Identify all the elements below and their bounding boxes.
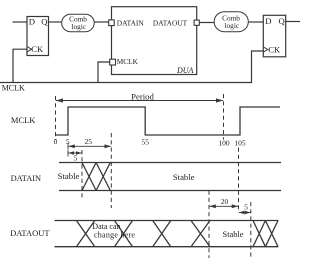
wire MCLK bus horizontal xyxy=(0,51,263,83)
svg-text:MCLK: MCLK xyxy=(2,84,25,93)
DATAOUT waveform rails xyxy=(55,221,279,247)
svg-text:5: 5 xyxy=(74,153,78,162)
dashed line t=0 xyxy=(55,96,57,140)
svg-text:55: 55 xyxy=(141,138,149,147)
svg-text:MCLK: MCLK xyxy=(11,115,36,125)
svg-text:logic: logic xyxy=(72,22,87,31)
wire CL2 to FF2 D input xyxy=(248,21,263,23)
DATAOUT crossover X1 xyxy=(76,221,94,247)
svg-text:20: 20 xyxy=(221,197,229,206)
dashed line hold boundary t=10 xyxy=(81,150,83,200)
svg-text:Stable: Stable xyxy=(223,230,244,239)
dimension Period arrow xyxy=(56,98,223,102)
svg-text:Period: Period xyxy=(131,92,154,102)
dashed line t=100 xyxy=(223,94,225,140)
svg-text:DATAIN: DATAIN xyxy=(11,174,41,183)
DATAIN crossover X1 xyxy=(82,163,96,191)
svg-text:DATAIN: DATAIN xyxy=(117,18,145,27)
svg-text:0: 0 xyxy=(54,137,58,146)
comb logic block CL1 xyxy=(62,14,94,32)
flip-flop FF2 box xyxy=(263,15,285,57)
dashed line DATAOUT stable end xyxy=(250,202,252,258)
DATAOUT crossover X5 xyxy=(253,221,265,247)
flip-flop FF1 clock triangle xyxy=(27,47,32,52)
svg-text:D: D xyxy=(265,16,271,26)
dimension 5 output arrow xyxy=(239,211,251,214)
MCLK waveform xyxy=(55,107,280,135)
DATAOUT crossover X4 xyxy=(191,221,210,247)
comb logic block CL2 xyxy=(214,12,248,32)
flip-flop FF1 box xyxy=(27,17,49,56)
DATAOUT crossover X3 xyxy=(153,221,171,247)
svg-text:CK: CK xyxy=(268,44,281,54)
svg-text:D: D xyxy=(29,16,35,26)
DATAOUT crossover X6 xyxy=(265,221,278,247)
port DATAOUT xyxy=(194,20,199,25)
wire FF1 clock xyxy=(13,49,27,82)
wire DATAOUT to comb logic CL2 xyxy=(199,22,214,24)
port DATAIN xyxy=(109,20,115,26)
dimension 5 hold arrow xyxy=(68,150,82,157)
svg-text:DATAOUT: DATAOUT xyxy=(153,18,188,27)
svg-text:CK: CK xyxy=(31,44,44,54)
svg-text:25: 25 xyxy=(84,137,92,146)
dashed line t=25 xyxy=(110,133,112,208)
flip-flop FF2 clock triangle xyxy=(263,47,268,52)
dashed line DATAOUT stable start xyxy=(208,191,210,259)
svg-text:DUA: DUA xyxy=(176,66,194,75)
svg-text:Stable: Stable xyxy=(58,171,80,181)
DUA block xyxy=(112,7,197,75)
timing diagram xyxy=(56,94,251,258)
svg-text:logic: logic xyxy=(225,21,240,30)
svg-text:Q: Q xyxy=(279,16,286,26)
svg-text:100: 100 xyxy=(218,138,230,147)
DATAOUT crossover X2 xyxy=(115,221,133,247)
svg-text:5: 5 xyxy=(244,203,248,212)
DATAIN crossover X2 xyxy=(96,163,110,191)
wire CL1 to DATAIN port xyxy=(94,21,109,23)
wire Q FF2 output xyxy=(286,21,300,23)
dimension 25 arrow xyxy=(68,143,111,150)
wire D input FF1 xyxy=(13,21,28,23)
DATAIN waveform rails xyxy=(59,163,281,191)
svg-text:Q: Q xyxy=(41,16,48,26)
dashed line t=105 lower xyxy=(238,148,240,212)
svg-text:Stable: Stable xyxy=(173,172,195,182)
svg-text:MCLK: MCLK xyxy=(117,57,139,66)
port MCLK xyxy=(110,59,116,65)
svg-text:change here: change here xyxy=(94,231,135,240)
dimension 20 arrow xyxy=(209,204,238,208)
wire Q FF1 to comb logic xyxy=(49,21,62,23)
svg-text:DATAOUT: DATAOUT xyxy=(10,228,50,238)
svg-text:105: 105 xyxy=(234,138,246,147)
wire MCLK port to bus xyxy=(98,62,110,83)
